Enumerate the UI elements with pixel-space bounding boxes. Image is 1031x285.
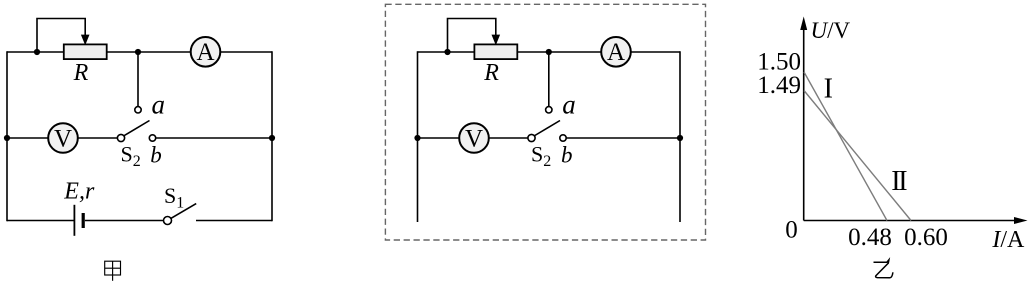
svg-text:V: V	[465, 125, 483, 152]
svg-text:V: V	[54, 125, 72, 152]
svg-text:I: I	[824, 74, 833, 105]
svg-text:R: R	[73, 60, 89, 86]
svg-text:A: A	[196, 39, 214, 66]
svg-text:0.48: 0.48	[848, 224, 892, 251]
svg-text:S2: S2	[531, 141, 551, 170]
svg-text:a: a	[562, 89, 576, 119]
svg-text:I/A: I/A	[991, 227, 1025, 253]
svg-text:1.49: 1.49	[757, 72, 801, 99]
svg-text:b: b	[561, 143, 573, 168]
svg-text:0.60: 0.60	[904, 224, 948, 251]
svg-text:a: a	[152, 89, 166, 119]
svg-text:II: II	[891, 166, 907, 197]
svg-text:0: 0	[785, 217, 798, 244]
svg-text:U/V: U/V	[811, 18, 851, 43]
svg-text:R: R	[483, 60, 499, 86]
svg-text:S1: S1	[164, 183, 184, 212]
svg-text:E,r: E,r	[63, 178, 95, 204]
svg-text:A: A	[607, 39, 625, 66]
svg-text:S2: S2	[121, 141, 141, 170]
svg-text:b: b	[150, 143, 162, 168]
